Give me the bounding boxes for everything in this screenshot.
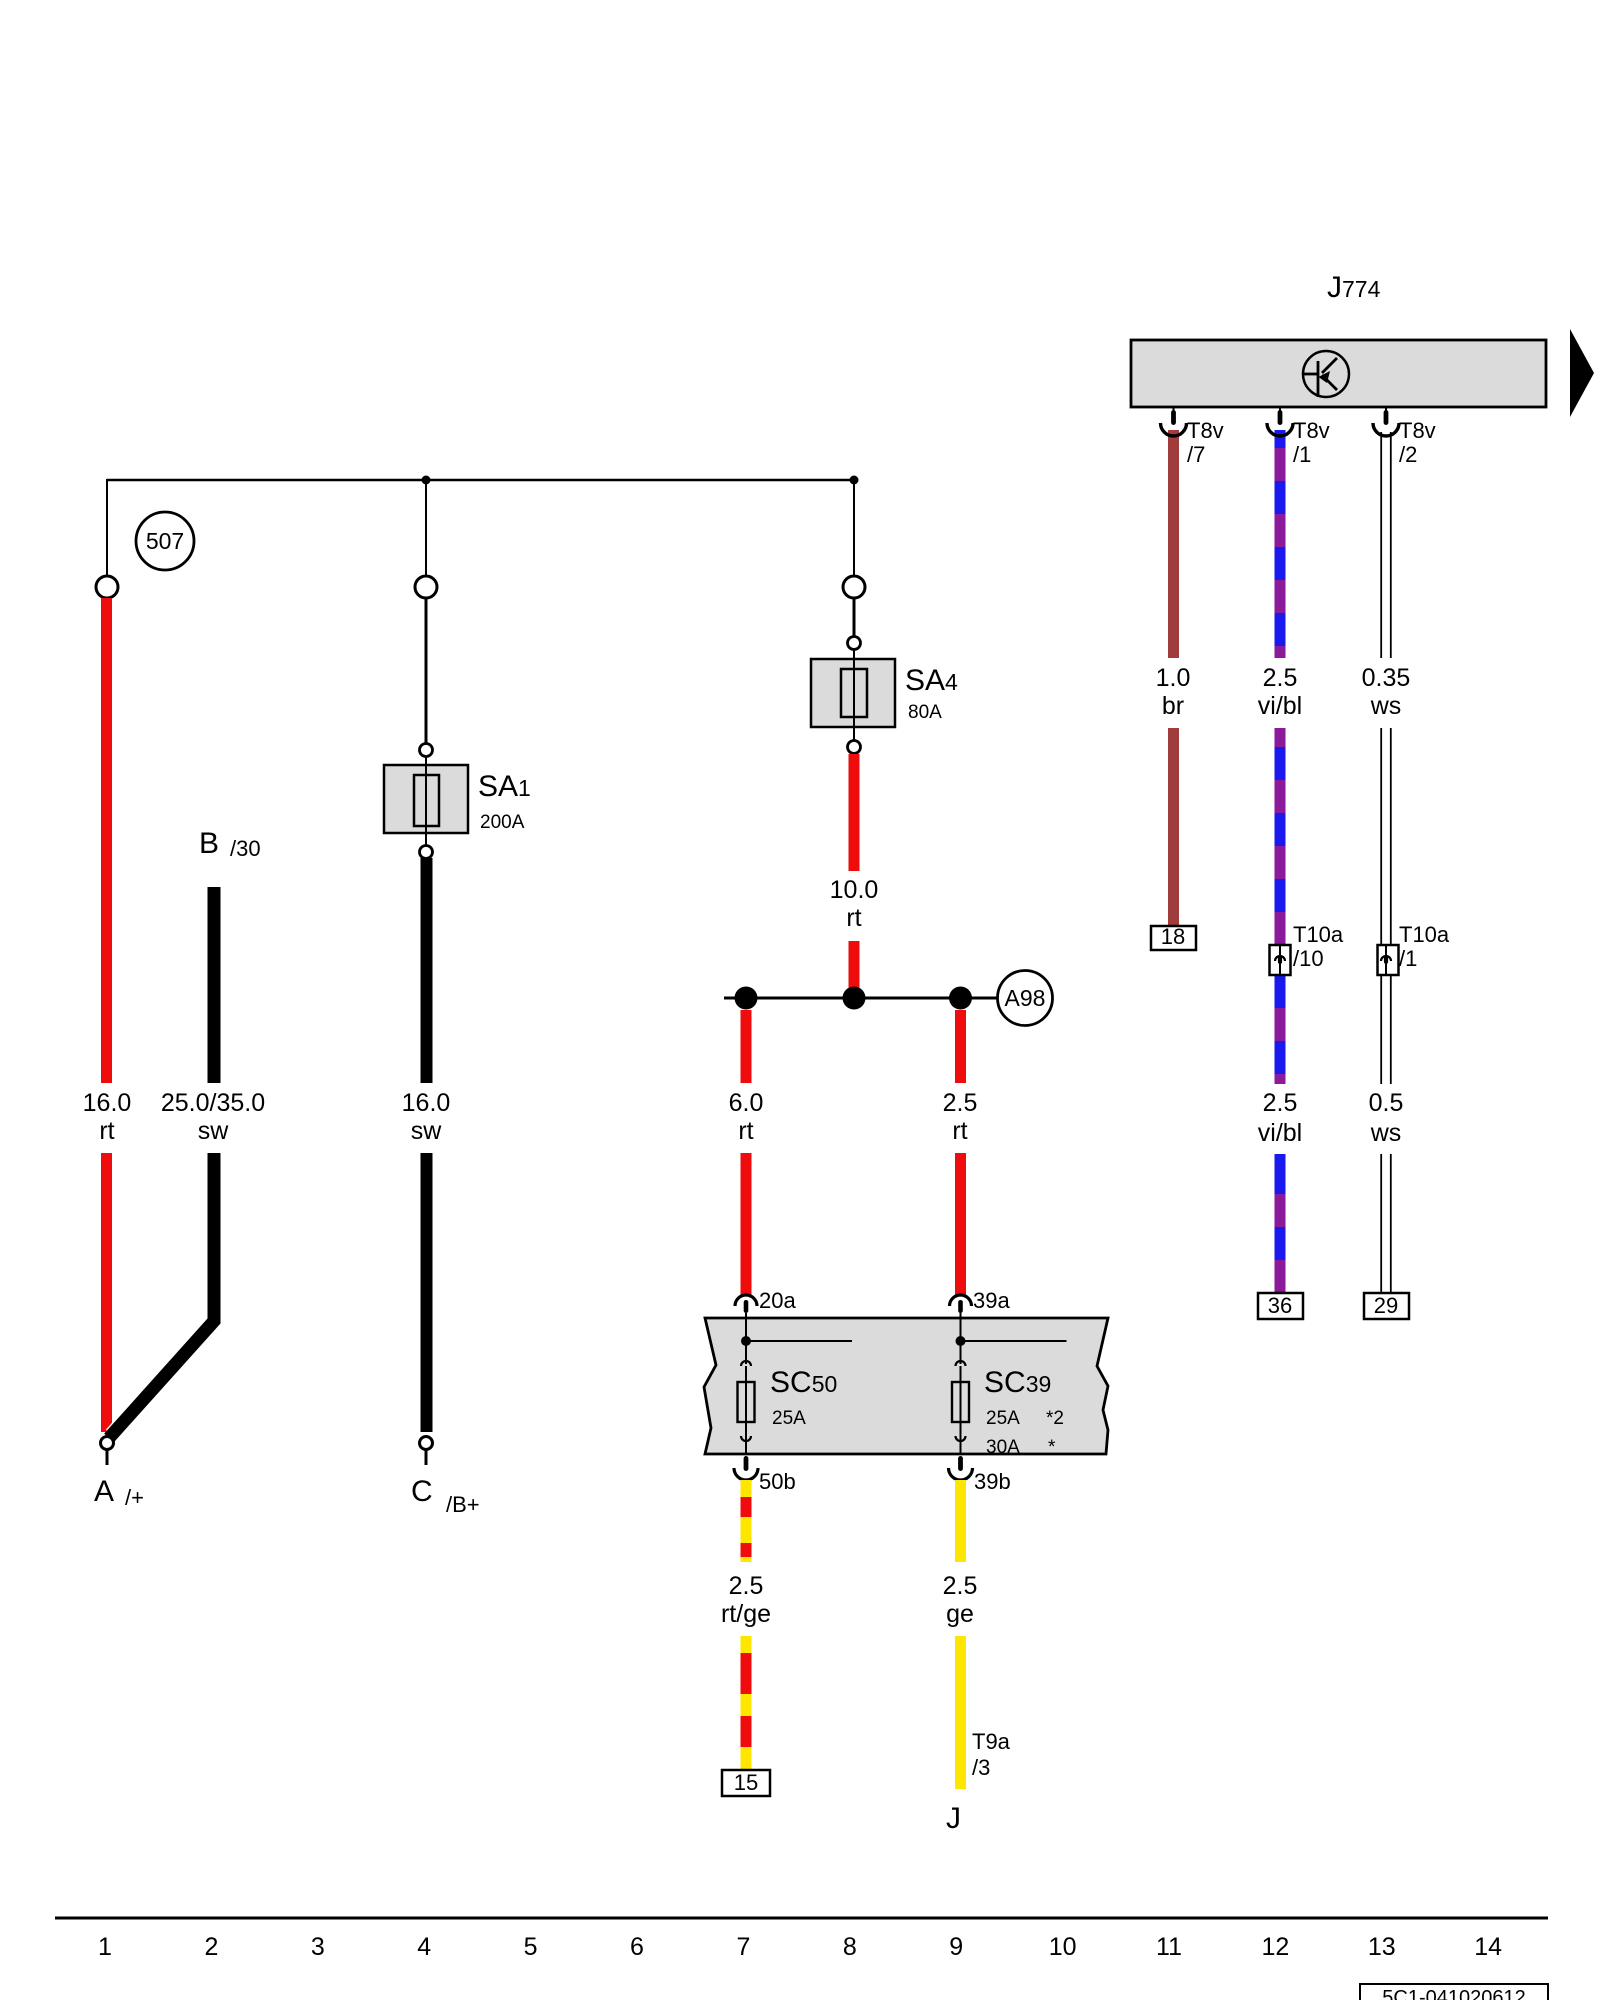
svg-text:3: 3 — [311, 1933, 325, 1961]
svg-text:1: 1 — [98, 1933, 112, 1961]
svg-text:5: 5 — [524, 1933, 538, 1961]
svg-text:5C1-041020612: 5C1-041020612 — [1382, 1987, 1525, 2000]
svg-text:SA1: SA1 — [478, 770, 531, 803]
svg-text:18: 18 — [1161, 924, 1185, 949]
svg-text:1.0: 1.0 — [1156, 664, 1191, 692]
svg-text:7: 7 — [736, 1933, 750, 1961]
svg-text:rt: rt — [846, 904, 861, 932]
svg-text:29: 29 — [1374, 1293, 1398, 1318]
svg-text:rt: rt — [738, 1117, 753, 1145]
svg-text:2.5: 2.5 — [943, 1572, 978, 1600]
svg-text:sw: sw — [198, 1117, 230, 1145]
svg-text:15: 15 — [734, 1770, 758, 1795]
svg-text:/30: /30 — [230, 836, 261, 861]
svg-text:2: 2 — [204, 1933, 218, 1961]
svg-text:T10a: T10a — [1399, 922, 1450, 947]
svg-text:6: 6 — [630, 1933, 644, 1961]
svg-text:J: J — [946, 1802, 961, 1835]
svg-text:25A: 25A — [986, 1408, 1020, 1429]
svg-text:rt/ge: rt/ge — [721, 1600, 771, 1628]
svg-text:A: A — [94, 1475, 114, 1508]
svg-text:SA4: SA4 — [905, 664, 958, 697]
svg-text:*: * — [1048, 1437, 1056, 1458]
svg-text:507: 507 — [146, 528, 184, 554]
svg-text:16.0: 16.0 — [83, 1089, 132, 1117]
svg-text:br: br — [1162, 692, 1184, 720]
svg-text:2.5: 2.5 — [729, 1572, 764, 1600]
svg-text:T10a: T10a — [1293, 922, 1344, 947]
svg-text:200A: 200A — [480, 812, 525, 833]
svg-text:ws: ws — [1370, 1119, 1402, 1147]
svg-text:ge: ge — [946, 1600, 974, 1628]
svg-text:vi/bl: vi/bl — [1258, 692, 1302, 720]
svg-text:12: 12 — [1261, 1933, 1289, 1961]
svg-text:25A: 25A — [772, 1408, 806, 1429]
svg-text:2.5: 2.5 — [1263, 664, 1298, 692]
svg-text:14: 14 — [1474, 1933, 1502, 1961]
svg-text:/1: /1 — [1293, 442, 1311, 467]
svg-text:80A: 80A — [908, 702, 942, 723]
svg-text:T8v: T8v — [1399, 418, 1436, 443]
svg-text:SC50: SC50 — [770, 1366, 837, 1399]
svg-text:8: 8 — [843, 1933, 857, 1961]
svg-text:0.5: 0.5 — [1369, 1089, 1404, 1117]
svg-text:sw: sw — [411, 1117, 443, 1145]
svg-text:0.35: 0.35 — [1362, 664, 1411, 692]
svg-text:4: 4 — [417, 1933, 431, 1961]
svg-text:/3: /3 — [972, 1755, 990, 1780]
svg-text:11: 11 — [1156, 1933, 1182, 1961]
svg-text:ws: ws — [1370, 692, 1402, 720]
svg-text:*2: *2 — [1046, 1408, 1064, 1429]
svg-text:6.0: 6.0 — [729, 1089, 764, 1117]
svg-text:/B+: /B+ — [446, 1492, 480, 1517]
svg-text:50b: 50b — [759, 1469, 796, 1494]
svg-text:/7: /7 — [1187, 442, 1205, 467]
svg-text:rt: rt — [952, 1117, 967, 1145]
svg-text:10.0: 10.0 — [830, 876, 879, 904]
svg-text:vi/bl: vi/bl — [1258, 1119, 1302, 1147]
svg-text:/10: /10 — [1293, 946, 1324, 971]
svg-text:A98: A98 — [1005, 985, 1046, 1011]
svg-text:13: 13 — [1368, 1933, 1396, 1961]
svg-text:C: C — [411, 1475, 433, 1508]
svg-text:20a: 20a — [759, 1288, 796, 1313]
svg-text:2.5: 2.5 — [943, 1089, 978, 1117]
svg-text:SC39: SC39 — [984, 1366, 1051, 1399]
svg-text:/2: /2 — [1399, 442, 1417, 467]
svg-text:9: 9 — [949, 1933, 963, 1961]
svg-text:25.0/35.0: 25.0/35.0 — [161, 1089, 265, 1117]
svg-text:39a: 39a — [973, 1288, 1010, 1313]
svg-text:/+: /+ — [125, 1485, 144, 1510]
svg-text:/1: /1 — [1399, 946, 1417, 971]
svg-text:J774: J774 — [1327, 271, 1381, 304]
svg-text:16.0: 16.0 — [402, 1089, 451, 1117]
svg-text:B: B — [199, 827, 219, 860]
svg-text:39b: 39b — [974, 1469, 1011, 1494]
svg-text:30A: 30A — [986, 1437, 1020, 1458]
svg-text:T9a: T9a — [972, 1729, 1011, 1754]
svg-text:36: 36 — [1268, 1293, 1292, 1318]
svg-text:rt: rt — [99, 1117, 114, 1145]
svg-text:10: 10 — [1049, 1933, 1077, 1961]
svg-text:T8v: T8v — [1293, 418, 1330, 443]
svg-text:2.5: 2.5 — [1263, 1089, 1298, 1117]
svg-text:T8v: T8v — [1187, 418, 1224, 443]
